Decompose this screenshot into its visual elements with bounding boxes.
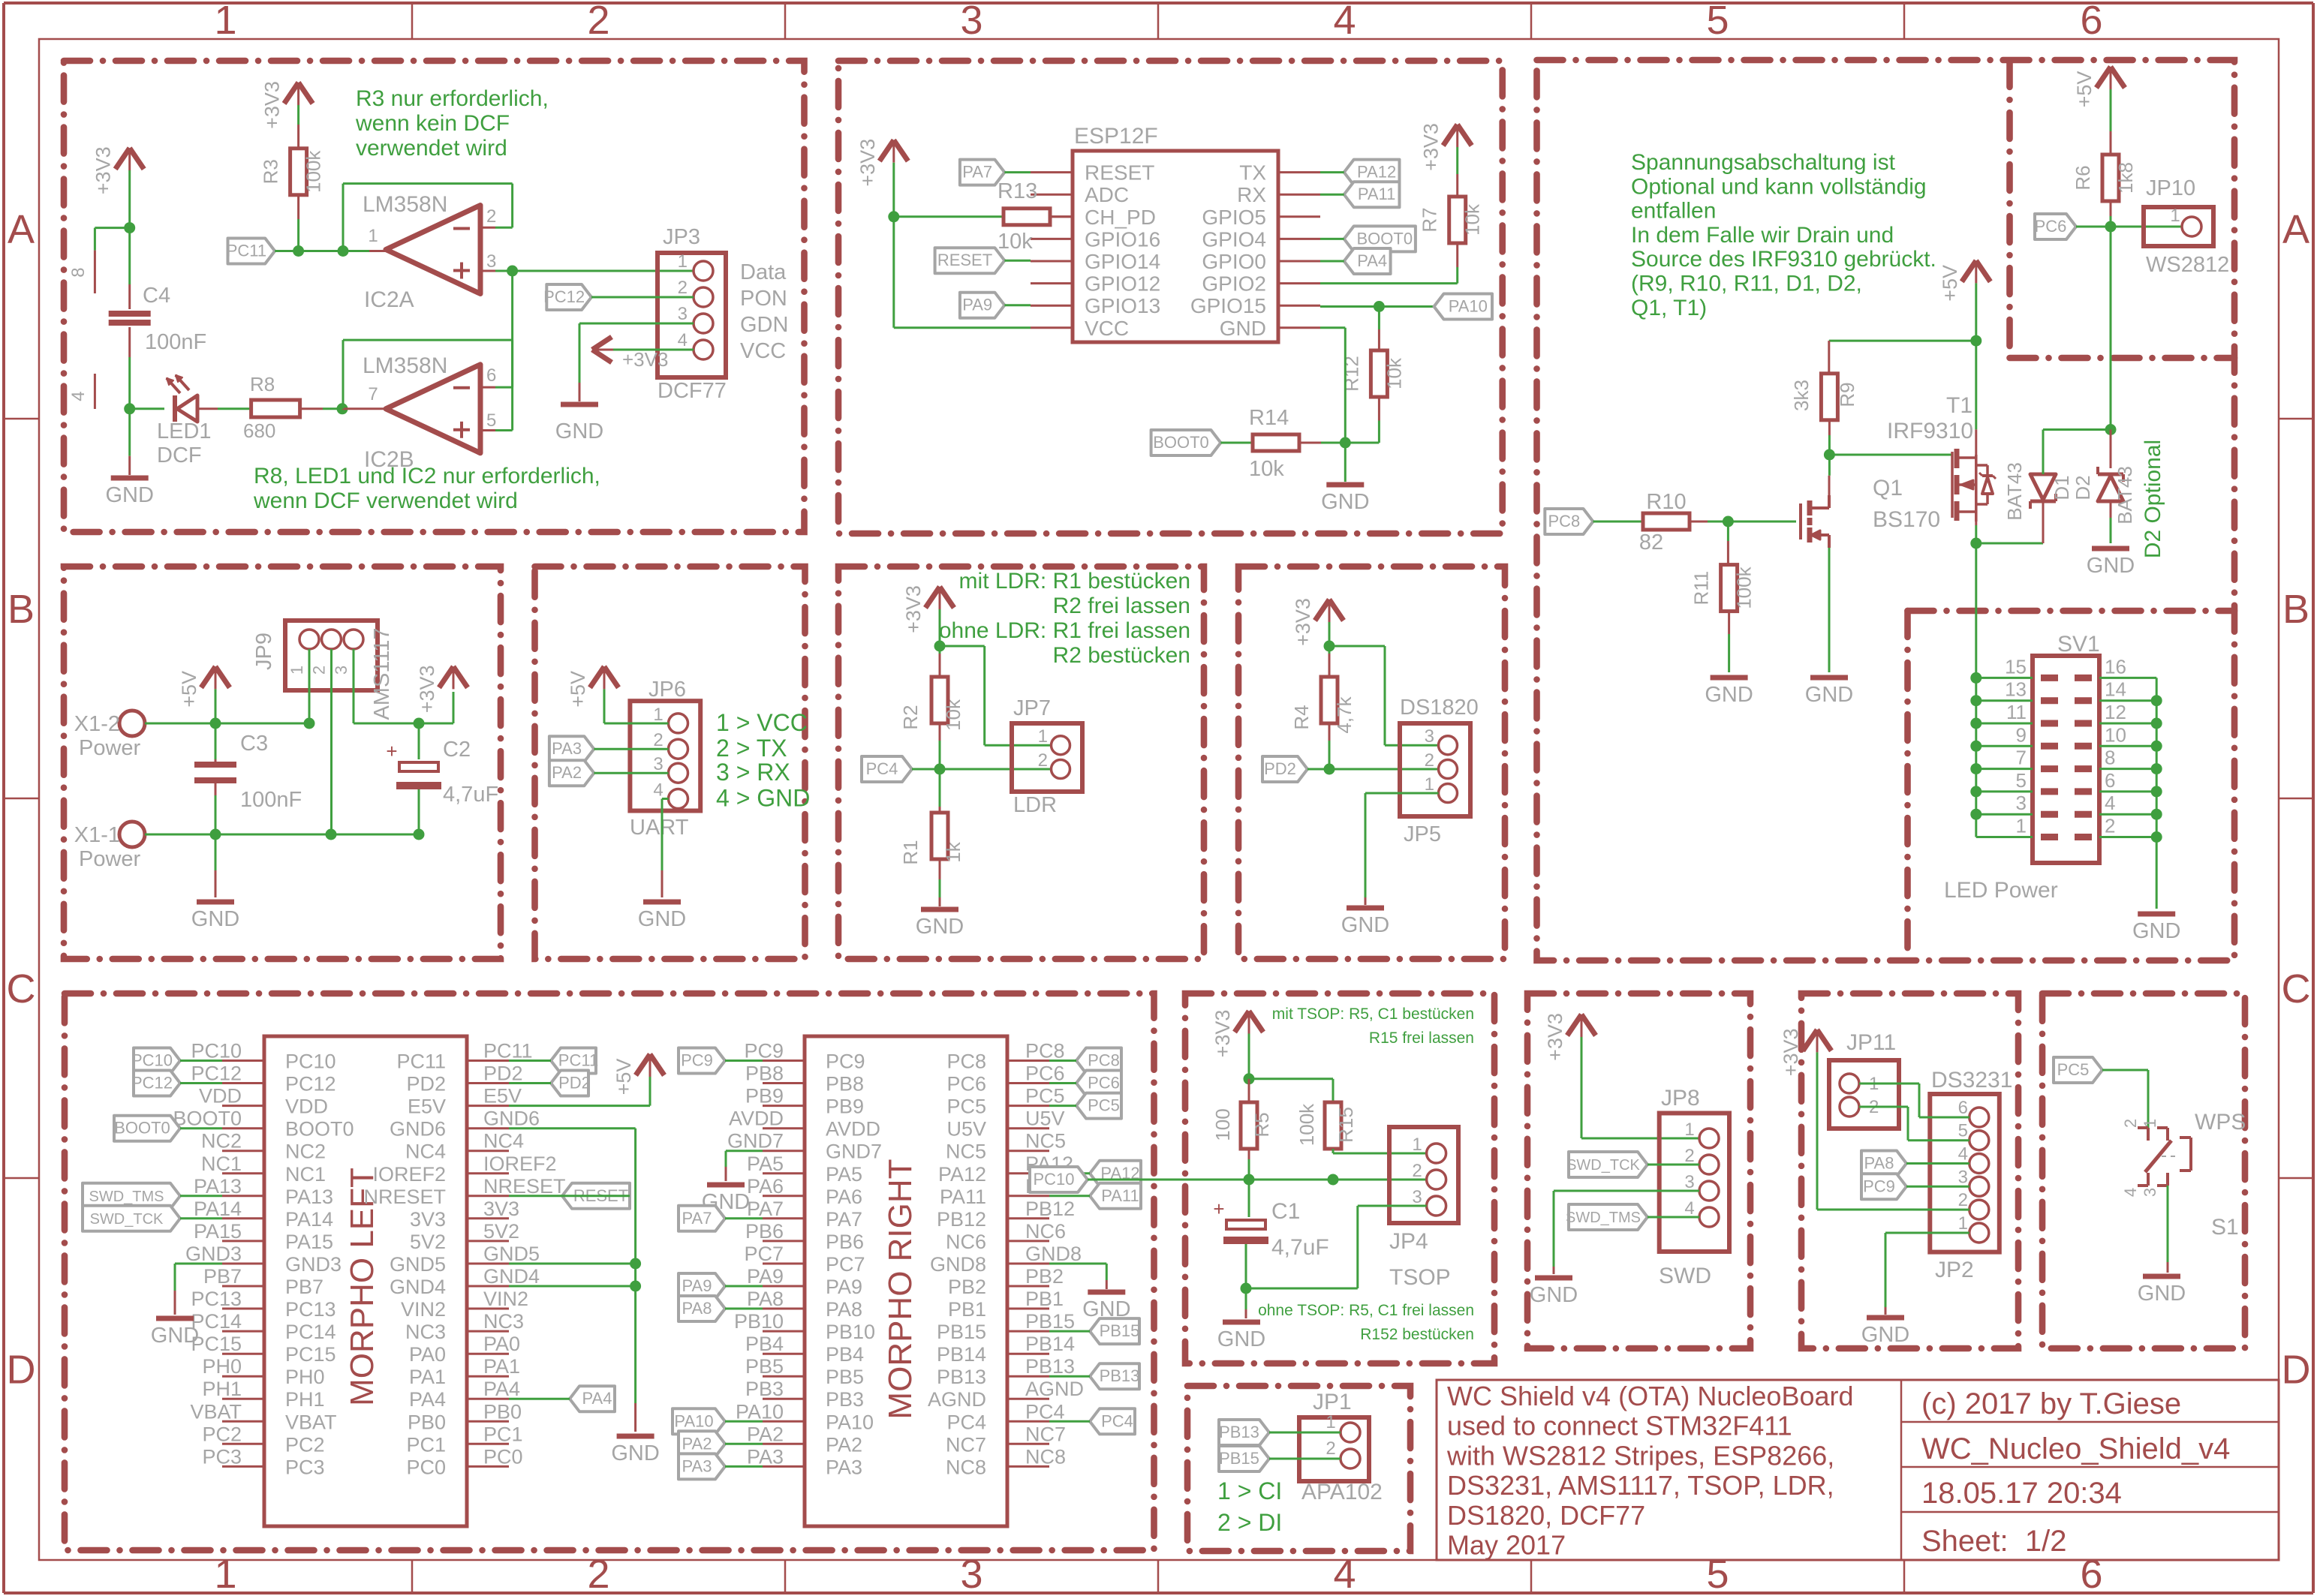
svg-text:PA10: PA10 (674, 1411, 713, 1430)
svg-text:NC6: NC6 (1025, 1220, 1066, 1243)
svg-text:+5V: +5V (2073, 71, 2096, 108)
svg-text:100k: 100k (302, 150, 325, 193)
svg-text:NC8: NC8 (1025, 1445, 1066, 1468)
svg-text:1: 1 (214, 0, 236, 43)
svg-text:PA3: PA3 (682, 1456, 712, 1475)
svg-text:mit TSOP: R5, C1 bestücken: mit TSOP: R5, C1 bestücken (1272, 1005, 1474, 1023)
svg-text:PB9: PB9 (826, 1096, 864, 1118)
svg-text:PC7: PC7 (826, 1253, 865, 1276)
svg-text:6: 6 (486, 365, 496, 386)
svg-text:SWD: SWD (1659, 1264, 1711, 1288)
svg-text:D2: D2 (2072, 475, 2094, 500)
svg-text:PC6: PC6 (2035, 217, 2067, 236)
svg-text:BOOT0: BOOT0 (285, 1118, 354, 1141)
svg-text:JP10: JP10 (2146, 176, 2195, 200)
svg-text:GND8: GND8 (1025, 1243, 1082, 1265)
svg-text:MORPHO RIGHT: MORPHO RIGHT (882, 1159, 919, 1419)
svg-text:1: 1 (2016, 815, 2027, 837)
svg-text:R6: R6 (2072, 165, 2094, 190)
svg-text:3: 3 (332, 666, 351, 675)
svg-text:GND4: GND4 (483, 1265, 540, 1288)
svg-text:5: 5 (1706, 1552, 1729, 1596)
svg-text:1k: 1k (942, 841, 964, 862)
svg-text:R4: R4 (1290, 705, 1313, 729)
svg-text:R1: R1 (899, 840, 922, 864)
svg-text:(c) 2017 by T.Giese: (c) 2017 by T.Giese (1921, 1387, 2181, 1420)
svg-text:LED1: LED1 (157, 419, 212, 443)
svg-text:PC13: PC13 (191, 1288, 242, 1310)
svg-text:GND: GND (105, 483, 153, 507)
svg-text:PB15: PB15 (937, 1321, 986, 1343)
svg-text:NC3: NC3 (483, 1310, 524, 1333)
svg-text:GND: GND (916, 915, 964, 939)
svg-text:PA8: PA8 (826, 1298, 862, 1321)
svg-text:PB8: PB8 (745, 1062, 784, 1085)
svg-text:3: 3 (2141, 1188, 2159, 1197)
svg-text:PB0: PB0 (483, 1400, 522, 1423)
svg-text:+: + (1213, 1198, 1224, 1220)
svg-text:In dem Falle wir Drain und: In dem Falle wir Drain und (1631, 223, 1894, 248)
svg-text:1: 1 (1958, 1213, 1968, 1234)
svg-text:A: A (2282, 207, 2309, 252)
svg-text:D2 Optional: D2 Optional (2141, 440, 2165, 558)
svg-text:1: 1 (2170, 206, 2180, 226)
svg-text:PA3: PA3 (747, 1445, 784, 1468)
svg-text:16: 16 (2105, 655, 2126, 678)
svg-text:2: 2 (678, 278, 688, 298)
svg-text:PC8: PC8 (1025, 1040, 1065, 1062)
svg-text:PC8: PC8 (1088, 1051, 1120, 1070)
svg-text:3V3: 3V3 (410, 1208, 446, 1231)
svg-text:Power: Power (79, 736, 141, 760)
svg-text:GND: GND (1341, 913, 1389, 937)
svg-text:4: 4 (653, 780, 663, 801)
svg-text:NC5: NC5 (946, 1141, 986, 1163)
svg-text:PC0: PC0 (483, 1445, 523, 1468)
svg-text:B: B (8, 587, 35, 632)
svg-text:JP3: JP3 (663, 225, 700, 249)
svg-text:JP11: JP11 (1846, 1030, 1896, 1055)
svg-text:U5V: U5V (1025, 1108, 1065, 1130)
svg-text:AGND: AGND (928, 1388, 986, 1411)
svg-text:4: 4 (2121, 1188, 2140, 1197)
svg-text:JP7: JP7 (1013, 696, 1051, 720)
svg-text:entfallen: entfallen (1631, 199, 1716, 224)
svg-text:PB6: PB6 (745, 1220, 784, 1243)
svg-text:PA7: PA7 (962, 163, 992, 182)
svg-text:+3V3: +3V3 (1544, 1013, 1566, 1061)
svg-text:R13: R13 (998, 179, 1037, 203)
svg-text:10k: 10k (1383, 357, 1405, 389)
svg-text:+5V: +5V (567, 671, 589, 708)
svg-text:5V2: 5V2 (483, 1220, 519, 1243)
svg-text:GND: GND (638, 907, 686, 931)
svg-text:PC4: PC4 (1025, 1400, 1065, 1423)
svg-text:GND3: GND3 (285, 1253, 342, 1276)
svg-text:GND: GND (191, 907, 239, 931)
svg-text:PB3: PB3 (826, 1388, 864, 1411)
svg-text:1: 1 (1326, 1412, 1335, 1432)
svg-text:+: + (386, 740, 397, 762)
svg-text:ADC: ADC (1085, 183, 1129, 206)
svg-text:100k: 100k (1733, 566, 1756, 609)
svg-text:4: 4 (1333, 0, 1356, 43)
svg-text:PA5: PA5 (747, 1153, 784, 1175)
svg-text:R8, LED1 und IC2 nur erforderl: R8, LED1 und IC2 nur erforderlich, (254, 464, 600, 488)
svg-text:8: 8 (2105, 747, 2115, 769)
svg-text:PC11: PC11 (558, 1051, 598, 1070)
svg-text:DS1820: DS1820 (1400, 696, 1479, 720)
svg-text:C: C (2282, 966, 2311, 1011)
svg-text:LED Power: LED Power (1944, 878, 2058, 903)
svg-text:GND7: GND7 (727, 1130, 784, 1153)
svg-text:wenn DCF verwendet wird: wenn DCF verwendet wird (253, 488, 518, 513)
svg-text:Data: Data (740, 260, 787, 284)
svg-text:PC12: PC12 (543, 287, 585, 306)
svg-text:2: 2 (486, 206, 496, 227)
svg-text:PB2: PB2 (1025, 1265, 1064, 1288)
svg-text:18.05.17 20:34: 18.05.17 20:34 (1921, 1477, 2122, 1510)
svg-text:WPS: WPS (2195, 1110, 2246, 1135)
svg-text:NC4: NC4 (405, 1141, 446, 1163)
svg-text:4: 4 (1333, 1552, 1356, 1596)
svg-text:1: 1 (1425, 774, 1434, 795)
svg-text:PC3: PC3 (202, 1445, 242, 1468)
svg-text:2: 2 (1038, 750, 1048, 771)
svg-text:5: 5 (1706, 0, 1729, 43)
svg-text:PC13: PC13 (285, 1298, 336, 1321)
svg-text:PA0: PA0 (409, 1343, 446, 1366)
svg-text:PC14: PC14 (285, 1321, 336, 1343)
svg-text:PC2: PC2 (202, 1423, 242, 1445)
svg-text:6: 6 (2080, 0, 2102, 43)
svg-text:2: 2 (1684, 1146, 1694, 1166)
svg-text:PA2: PA2 (682, 1434, 712, 1453)
svg-text:10: 10 (2105, 723, 2126, 746)
svg-text:BOOT0: BOOT0 (1357, 229, 1413, 248)
svg-text:APA102: APA102 (1301, 1480, 1383, 1504)
svg-text:PB2: PB2 (948, 1276, 986, 1298)
svg-text:15: 15 (2005, 655, 2027, 678)
svg-text:WC_Nucleo_Shield_v4: WC_Nucleo_Shield_v4 (1921, 1432, 2230, 1465)
svg-text:A: A (8, 207, 35, 252)
svg-text:3: 3 (678, 304, 688, 324)
svg-text:R5: R5 (1250, 1112, 1273, 1137)
svg-text:R8: R8 (250, 373, 275, 395)
svg-text:PA10: PA10 (736, 1400, 784, 1423)
svg-text:R9: R9 (1836, 382, 1858, 407)
svg-text:PA14: PA14 (194, 1198, 242, 1220)
svg-text:ohne TSOP: R5, C1 frei lassen: ohne TSOP: R5, C1 frei lassen (1258, 1302, 1474, 1319)
svg-text:GPIO13: GPIO13 (1085, 294, 1160, 317)
svg-text:GPIO14: GPIO14 (1085, 250, 1160, 273)
svg-text:GND5: GND5 (483, 1243, 540, 1265)
svg-text:NC7: NC7 (946, 1433, 986, 1456)
svg-text:PA1: PA1 (409, 1366, 446, 1388)
svg-text:PA13: PA13 (194, 1175, 242, 1198)
svg-text:Optional und kann vollständig: Optional und kann vollständig (1631, 174, 1927, 199)
svg-text:WS2812: WS2812 (2146, 253, 2229, 277)
svg-text:PC5: PC5 (2057, 1060, 2090, 1079)
svg-text:R2 frei lassen: R2 frei lassen (1053, 594, 1190, 618)
svg-text:12: 12 (2105, 701, 2126, 723)
svg-text:PB1: PB1 (1025, 1288, 1064, 1310)
svg-text:PC4: PC4 (1101, 1411, 1133, 1430)
svg-text:PON: PON (740, 287, 787, 311)
svg-text:PC12: PC12 (191, 1062, 242, 1085)
svg-text:R10: R10 (1646, 490, 1686, 514)
svg-text:GPIO2: GPIO2 (1202, 272, 1266, 296)
svg-text:5: 5 (2016, 769, 2027, 792)
svg-text:+5V: +5V (612, 1059, 635, 1096)
svg-text:4: 4 (1684, 1198, 1694, 1219)
svg-text:+3V3: +3V3 (1420, 123, 1443, 171)
svg-text:GND5: GND5 (390, 1253, 446, 1276)
svg-text:GND: GND (1805, 683, 1853, 707)
svg-text:NC6: NC6 (946, 1231, 986, 1253)
svg-text:GND: GND (1217, 1327, 1265, 1351)
svg-text:7: 7 (368, 384, 378, 404)
svg-text:D1: D1 (2051, 475, 2073, 500)
svg-text:PB6: PB6 (826, 1231, 864, 1253)
svg-text:+3V3: +3V3 (902, 585, 925, 633)
svg-text:2: 2 (1326, 1438, 1335, 1459)
svg-text:VDD: VDD (285, 1096, 328, 1118)
svg-text:NRESET: NRESET (363, 1186, 446, 1208)
svg-text:100k: 100k (1295, 1103, 1318, 1146)
svg-text:4: 4 (678, 330, 688, 350)
svg-text:LDR: LDR (1013, 793, 1057, 817)
svg-text:+3V3: +3V3 (622, 348, 668, 371)
svg-text:PB12: PB12 (937, 1208, 986, 1231)
svg-text:2: 2 (587, 1552, 609, 1596)
svg-text:WC Shield v4 (OTA) NucleoBoard: WC Shield v4 (OTA) NucleoBoard (1447, 1381, 1854, 1411)
svg-text:PC1: PC1 (406, 1433, 446, 1456)
svg-text:PA9: PA9 (962, 296, 992, 314)
svg-text:PH1: PH1 (285, 1388, 325, 1411)
svg-text:PC5: PC5 (1088, 1096, 1120, 1115)
svg-text:PA4: PA4 (409, 1388, 446, 1411)
svg-text:2: 2 (587, 0, 609, 43)
svg-text:VBAT: VBAT (190, 1400, 242, 1423)
svg-text:4,7k: 4,7k (1333, 696, 1356, 733)
svg-text:1: 1 (653, 705, 663, 725)
svg-text:GND8: GND8 (930, 1253, 986, 1276)
svg-text:VCC: VCC (1085, 317, 1129, 340)
svg-text:C2: C2 (443, 738, 471, 762)
svg-text:X1-1: X1-1 (74, 823, 120, 847)
svg-text:82: 82 (1639, 530, 1663, 555)
svg-text:PB4: PB4 (826, 1343, 864, 1366)
svg-text:NC2: NC2 (285, 1141, 326, 1163)
svg-text:BOOT0: BOOT0 (1153, 433, 1209, 452)
svg-text:RX: RX (1237, 183, 1266, 206)
svg-text:PC3: PC3 (285, 1456, 325, 1478)
svg-text:100: 100 (1211, 1108, 1234, 1141)
svg-text:Source des IRF9310 gebrückt.: Source des IRF9310 gebrückt. (1631, 247, 1936, 272)
svg-text:VIN2: VIN2 (401, 1298, 446, 1321)
svg-text:PC11: PC11 (227, 242, 266, 260)
svg-text:NC7: NC7 (1025, 1423, 1066, 1445)
svg-text:PA1: PA1 (483, 1355, 520, 1378)
svg-text:C: C (7, 966, 36, 1011)
svg-text:PH0: PH0 (202, 1355, 242, 1378)
svg-text:5: 5 (1958, 1121, 1968, 1141)
svg-text:GND: GND (2132, 919, 2180, 943)
svg-text:GND: GND (1220, 317, 1266, 340)
svg-text:3: 3 (1958, 1167, 1968, 1187)
svg-text:2: 2 (310, 666, 329, 675)
svg-text:SWD_TCK: SWD_TCK (90, 1211, 164, 1228)
svg-text:GPIO16: GPIO16 (1085, 227, 1160, 251)
svg-text:PC9: PC9 (681, 1051, 713, 1070)
svg-text:VCC: VCC (740, 339, 786, 363)
svg-text:R7: R7 (1419, 207, 1441, 232)
svg-text:PC6: PC6 (946, 1073, 986, 1096)
svg-text:DCF: DCF (157, 443, 202, 467)
svg-text:C4: C4 (143, 284, 170, 308)
svg-text:PB7: PB7 (285, 1276, 323, 1298)
svg-text:PC15: PC15 (285, 1343, 336, 1366)
svg-text:3 > RX: 3 > RX (716, 759, 790, 786)
svg-text:BOOT0: BOOT0 (114, 1119, 170, 1138)
svg-text:used to connect STM32F411: used to connect STM32F411 (1447, 1411, 1792, 1441)
svg-text:IRF9310: IRF9310 (1887, 419, 1973, 443)
svg-text:PC9: PC9 (1863, 1177, 1895, 1195)
svg-text:DS1820, DCF77: DS1820, DCF77 (1447, 1500, 1645, 1531)
svg-text:NC1: NC1 (285, 1163, 326, 1186)
svg-text:X1-2: X1-2 (74, 712, 120, 736)
svg-text:6: 6 (2080, 1552, 2102, 1596)
svg-text:PB4: PB4 (745, 1333, 784, 1355)
svg-text:6: 6 (2105, 769, 2115, 792)
svg-text:4,7uF: 4,7uF (1271, 1235, 1329, 1260)
svg-text:GPIO0: GPIO0 (1202, 250, 1266, 273)
svg-text:PC8: PC8 (1548, 512, 1581, 530)
svg-text:10k: 10k (1249, 457, 1284, 481)
svg-text:JP2: JP2 (1935, 1258, 1974, 1282)
svg-text:+3V3: +3V3 (856, 139, 879, 187)
svg-text:3: 3 (1684, 1172, 1694, 1192)
svg-text:Spannungsabschaltung ist: Spannungsabschaltung ist (1631, 150, 1896, 175)
svg-text:7: 7 (2016, 747, 2027, 769)
svg-text:GND7: GND7 (826, 1141, 882, 1163)
svg-text:GPIO12: GPIO12 (1085, 272, 1160, 296)
svg-text:SWD_TMS: SWD_TMS (89, 1189, 164, 1205)
svg-text:PA6: PA6 (826, 1186, 862, 1208)
svg-text:Q1, T1): Q1, T1) (1631, 296, 1707, 320)
svg-text:PA15: PA15 (285, 1231, 333, 1253)
svg-text:PA2: PA2 (552, 763, 582, 782)
svg-text:wenn kein DCF: wenn kein DCF (355, 111, 510, 136)
svg-text:R15 frei lassen: R15 frei lassen (1369, 1029, 1474, 1047)
svg-text:2 > DI: 2 > DI (1217, 1509, 1282, 1536)
svg-text:GDN: GDN (740, 313, 788, 337)
svg-text:PC11: PC11 (396, 1050, 446, 1073)
svg-text:BOOT0: BOOT0 (173, 1108, 242, 1130)
svg-text:C1: C1 (1271, 1199, 1300, 1224)
svg-text:verwendet wird: verwendet wird (356, 136, 507, 161)
svg-text:1: 1 (1684, 1120, 1694, 1140)
svg-text:PA7: PA7 (747, 1198, 784, 1220)
svg-text:1: 1 (214, 1552, 236, 1596)
svg-text:10k: 10k (942, 699, 964, 731)
svg-text:May 2017: May 2017 (1447, 1530, 1566, 1561)
svg-text:AVDD: AVDD (729, 1108, 784, 1130)
svg-text:BS170: BS170 (1873, 507, 1940, 532)
svg-text:PA5: PA5 (826, 1163, 862, 1186)
svg-text:PC10: PC10 (131, 1051, 173, 1070)
svg-text:+3V3: +3V3 (416, 665, 438, 713)
svg-text:+5V: +5V (178, 671, 200, 708)
svg-text:NC8: NC8 (946, 1456, 986, 1478)
svg-text:PA8: PA8 (1864, 1154, 1894, 1173)
svg-text:PC8: PC8 (946, 1050, 986, 1073)
svg-text:2: 2 (1412, 1161, 1422, 1181)
svg-text:PA4: PA4 (483, 1378, 520, 1400)
svg-text:PA12: PA12 (1357, 163, 1396, 182)
svg-text:PA3: PA3 (826, 1456, 862, 1478)
svg-text:PC0: PC0 (406, 1456, 446, 1478)
svg-text:IC2A: IC2A (364, 287, 414, 312)
svg-text:Q1: Q1 (1873, 476, 1903, 500)
svg-text:PA4: PA4 (582, 1389, 612, 1408)
svg-text:GND: GND (1321, 490, 1369, 514)
svg-text:GND: GND (2138, 1282, 2186, 1306)
svg-text:GND: GND (2087, 554, 2135, 578)
svg-text:1: 1 (368, 226, 378, 246)
svg-text:PA13: PA13 (285, 1186, 333, 1208)
svg-text:1k8: 1k8 (2114, 162, 2137, 194)
svg-text:PC5: PC5 (1025, 1085, 1065, 1108)
svg-text:2: 2 (1958, 1190, 1968, 1210)
svg-text:2: 2 (653, 730, 663, 750)
svg-text:PC5: PC5 (946, 1096, 986, 1118)
svg-text:3: 3 (486, 251, 496, 272)
svg-text:1 > CI: 1 > CI (1217, 1477, 1282, 1504)
svg-text:3V3: 3V3 (483, 1198, 519, 1220)
svg-text:6: 6 (1958, 1098, 1968, 1118)
svg-text:13: 13 (2005, 678, 2027, 701)
svg-text:C3: C3 (240, 732, 268, 756)
svg-text:PC10: PC10 (1033, 1170, 1074, 1189)
svg-text:VIN2: VIN2 (483, 1288, 528, 1310)
svg-text:E5V: E5V (483, 1085, 522, 1108)
svg-text:1: 1 (678, 251, 688, 272)
svg-text:AMS1117: AMS1117 (370, 627, 394, 720)
svg-text:PH1: PH1 (202, 1378, 242, 1400)
svg-text:3: 3 (1425, 726, 1434, 747)
svg-text:PA11: PA11 (1101, 1186, 1139, 1205)
svg-text:+3V3: +3V3 (92, 146, 115, 194)
svg-text:2: 2 (1425, 750, 1434, 771)
svg-text:PB10: PB10 (734, 1310, 784, 1333)
svg-text:PA10: PA10 (826, 1411, 874, 1433)
svg-text:DCF77: DCF77 (657, 379, 727, 403)
svg-text:+3V3: +3V3 (1780, 1028, 1802, 1076)
svg-text:PB13: PB13 (1025, 1355, 1075, 1378)
svg-text:SV1: SV1 (2057, 632, 2100, 657)
svg-text:ohne LDR: R1 frei lassen: ohne LDR: R1 frei lassen (939, 618, 1190, 643)
svg-text:PH0: PH0 (285, 1366, 325, 1388)
svg-text:PA9: PA9 (747, 1265, 784, 1288)
svg-text:R11: R11 (1690, 571, 1713, 606)
svg-text:PD2: PD2 (483, 1062, 523, 1085)
svg-text:GND6: GND6 (390, 1118, 446, 1141)
svg-text:5V2: 5V2 (410, 1231, 446, 1253)
svg-text:GPIO15: GPIO15 (1190, 294, 1266, 317)
svg-text:TX: TX (1239, 161, 1266, 185)
